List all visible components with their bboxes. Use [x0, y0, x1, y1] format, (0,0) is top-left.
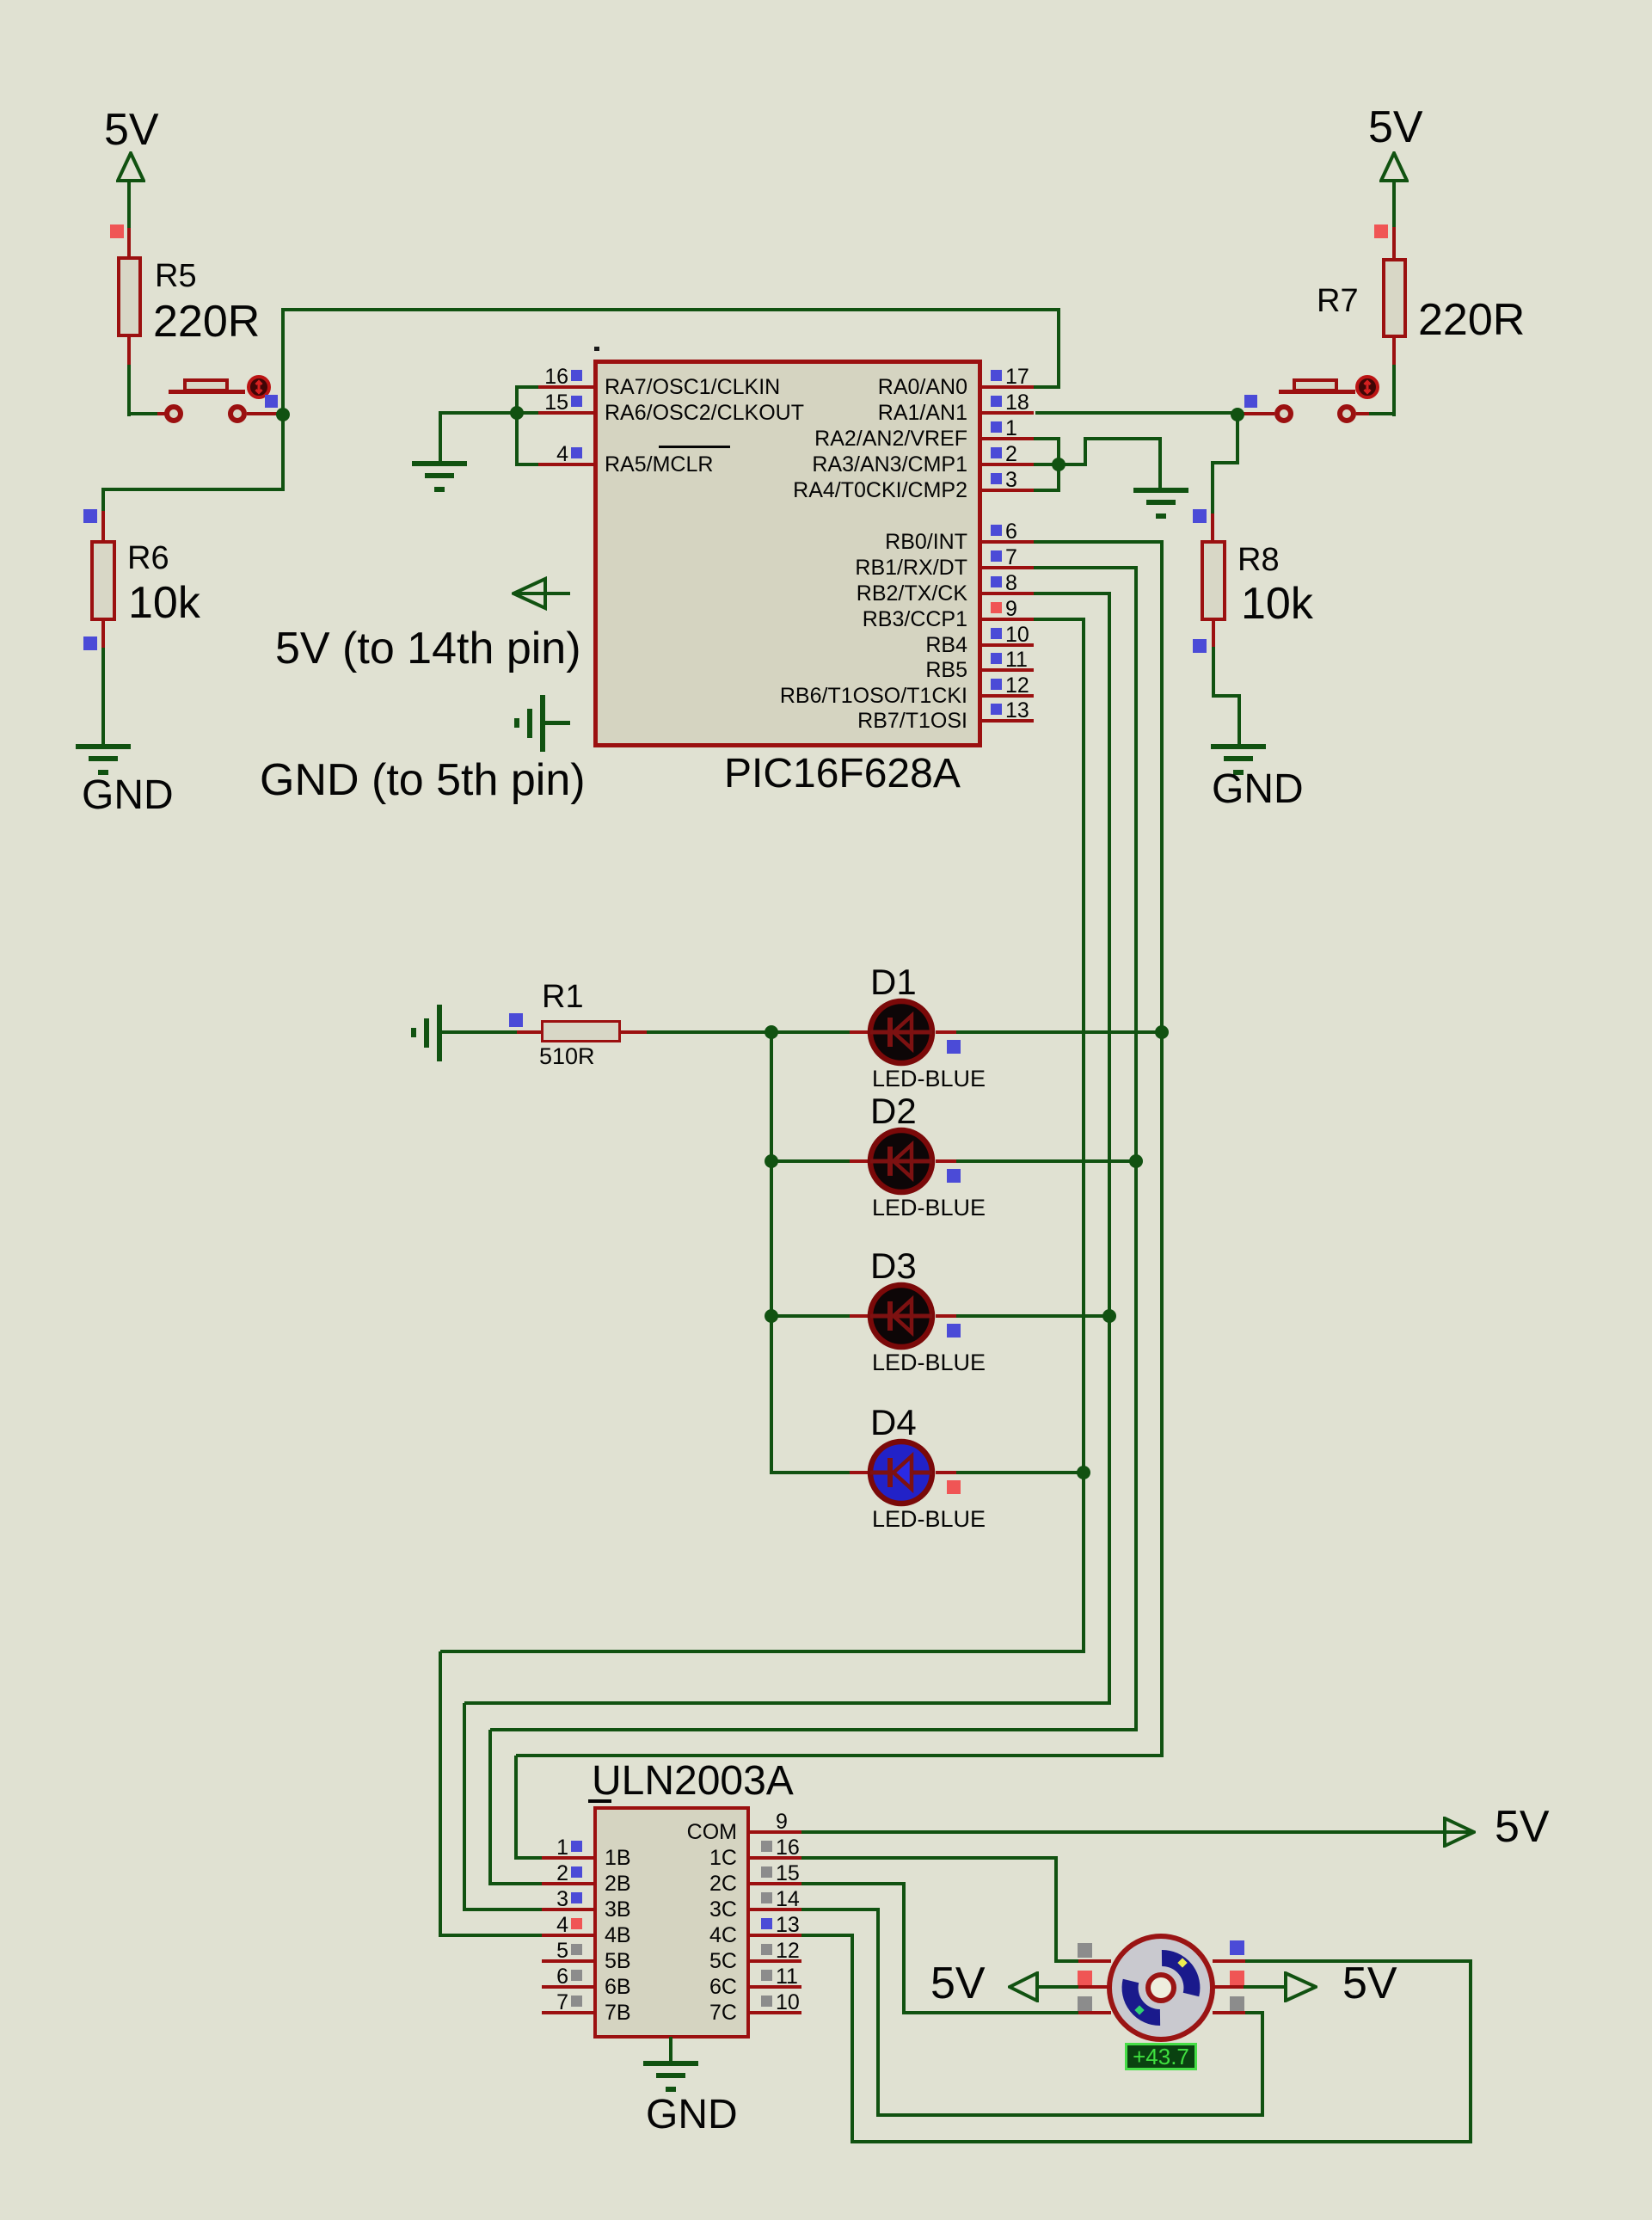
- LED D2 value label LED-BLUE: [872, 1196, 986, 1220]
- push button SW2 right terminal: [1337, 404, 1356, 423]
- pin 11 6C (ULN right): [0, 0, 1, 1]
- pin 16 1C (ULN right): [0, 0, 1, 1]
- pin 15 2C (ULN right): [0, 0, 1, 1]
- node square D4 right: [947, 1480, 961, 1494]
- wire R7 to button SW2: [1392, 365, 1396, 416]
- pin name RA7/OSC1/CLKIN: [605, 377, 780, 398]
- wire D3 to bus: [956, 1314, 1111, 1318]
- wire 5V arrow to R5: [127, 181, 131, 228]
- wire pin4 up to node C: [515, 413, 519, 464]
- ground symbol (R1, rotated left): [0, 0, 1, 1]
- push button SW1 actuator: [246, 374, 272, 400]
- annotation ground symbol GND to 5th pin: [0, 0, 1, 1]
- node square motor left-bottom (grey): [1078, 1996, 1092, 2011]
- junction bus/D2: [765, 1154, 778, 1168]
- motor right-middle lead: [1213, 1985, 1245, 1989]
- wire pin9 RB3 vertical bus: [1082, 619, 1085, 1653]
- pin 13 RB7/T1OSI (PIC right): [0, 0, 1, 1]
- LED D4 label: [870, 1405, 917, 1441]
- wire R5 to SW1 left terminal: [127, 412, 159, 415]
- junction D3 net: [1102, 1309, 1116, 1323]
- pin name RB4: [193, 635, 967, 656]
- wire node D jog up: [1084, 439, 1087, 466]
- power 5V arrow symbol (left): [116, 151, 145, 184]
- pin number 3: [1005, 470, 1017, 491]
- junction bus/D3: [765, 1309, 778, 1323]
- annotation arrow 5V to 14th pin: [512, 576, 574, 611]
- wire pin16 down to node C: [515, 387, 519, 413]
- resistor R7 body: [1382, 258, 1407, 338]
- pin number 17: [1005, 366, 1029, 388]
- LED D2 (LED-BLUE): [867, 1127, 936, 1196]
- wire R1 to node E: [647, 1030, 773, 1034]
- LED D1 (LED-BLUE): [867, 998, 936, 1067]
- resistor R6 value 10k: [128, 581, 200, 625]
- push button SW1 (left): [0, 0, 1, 1]
- pin name RB5: [193, 660, 967, 681]
- resistor R1 right lead: [621, 1030, 647, 1034]
- LED D1 label: [870, 964, 917, 1000]
- pin name 6B: [605, 1977, 631, 1998]
- junction node E (R1/D1): [765, 1025, 778, 1039]
- pin number 18: [1005, 392, 1029, 414]
- resistor R8 body: [1201, 540, 1226, 621]
- junction D1 net: [1155, 1025, 1169, 1039]
- pin number 1: [0, 1837, 568, 1859]
- pin name COM: [0, 1822, 737, 1843]
- node square (blue) R8 top: [1193, 509, 1207, 523]
- LED D3 (LED-BLUE): [867, 1282, 936, 1350]
- pin 4 RA5/MCLR (PIC left): [0, 0, 1, 1]
- pin 11 RB5 (PIC right): [0, 0, 1, 1]
- resistor R5 bottom lead: [127, 337, 131, 365]
- pin name 3B: [605, 1899, 631, 1921]
- wire 1C down: [1054, 1858, 1058, 1963]
- node square (blue) R6 bottom: [83, 636, 97, 650]
- wire left toward R6: [101, 488, 285, 491]
- resistor R7 bottom lead: [1392, 338, 1396, 365]
- pin number 13: [776, 1915, 800, 1936]
- node square (blue) R8 bottom: [1193, 639, 1207, 653]
- wire D4 to bus: [956, 1471, 1085, 1474]
- wire 2C across: [801, 1882, 906, 1885]
- wire ground to R1: [440, 1030, 517, 1034]
- pin 1 1B (ULN left): [0, 0, 1, 1]
- node square (red) R5 top: [110, 224, 124, 238]
- wire pin8 RB2 across: [1034, 592, 1111, 595]
- LED D3 left lead: [850, 1314, 871, 1318]
- wire RB0 to 1B into pin: [514, 1856, 544, 1860]
- wire pin16 elbow: [515, 385, 538, 389]
- resistor R1 left lead: [517, 1030, 541, 1034]
- wire motor right-bottom lead wire: [1244, 2011, 1264, 2014]
- pin number 15: [0, 392, 568, 414]
- junction node A (left button): [276, 408, 290, 421]
- pin number 10: [1005, 624, 1029, 646]
- junction node B (right button): [1231, 408, 1244, 421]
- pin number 4: [0, 444, 568, 465]
- motor right-top lead: [1213, 1959, 1245, 1963]
- resistor R6 label: [127, 542, 169, 575]
- resistor R7 label: [1317, 285, 1359, 317]
- power 5V label (left): [104, 108, 159, 152]
- pin number 11: [1005, 649, 1028, 671]
- pin 7 7B (ULN left): [0, 0, 1, 1]
- wire motor right-middle to 5V arrow: [1244, 1985, 1287, 1989]
- pin 6 6B (ULN left): [0, 0, 1, 1]
- wire node B down: [1236, 415, 1239, 464]
- motor M1 stepper body: [1104, 1930, 1219, 2045]
- pin number 14: [776, 1889, 800, 1910]
- LED D2 left lead: [850, 1159, 871, 1163]
- wire jog across: [1084, 437, 1162, 440]
- power 5V label (motor left): [930, 1961, 986, 2006]
- resistor R5 body: [117, 256, 142, 337]
- pin number 7: [0, 1992, 568, 2014]
- pin name RA2/AN2/VREF: [193, 428, 967, 450]
- LED D4 left lead: [850, 1471, 871, 1474]
- pin name RA0/AN0: [193, 377, 967, 398]
- resistor R8 bottom lead: [1212, 621, 1215, 647]
- push button SW1 left terminal: [164, 404, 183, 423]
- node square motor right-middle (red): [1230, 1971, 1244, 1985]
- pin 5 5B (ULN left): [0, 0, 1, 1]
- wire down to mid ground: [1158, 439, 1162, 489]
- wire pin3 up to node D: [1057, 464, 1060, 490]
- wire RB2 to 3B horizontal: [464, 1701, 1111, 1705]
- pin 18 RA1/AN1 (PIC right): [0, 0, 1, 1]
- wire pin15 to node C: [517, 411, 538, 415]
- wire pin6 RB0 across: [1034, 540, 1164, 544]
- op-amp U1 PIC16F628A body: [593, 360, 982, 747]
- pin number 7: [1005, 547, 1017, 569]
- pin name RB6/T1OSO/T1CKI: [193, 686, 967, 707]
- pin name 5C: [0, 1951, 737, 1972]
- ground symbol (mid, pins 1-3): [0, 0, 1, 1]
- junction D2 net: [1129, 1154, 1143, 1168]
- annotation text 5V (to 14th pin): [275, 626, 581, 671]
- wire down to pin 17: [1057, 308, 1060, 387]
- resistor R1 label: [542, 981, 584, 1013]
- wire 3C across: [801, 1908, 880, 1911]
- IC name underline: [588, 1799, 611, 1803]
- node square (blue) R6 top: [83, 509, 97, 523]
- ground symbol (left): [0, 0, 1, 1]
- resistor R8 top lead: [1211, 513, 1214, 540]
- wire left toward R8: [1211, 461, 1239, 464]
- ground GND label (left): [82, 775, 174, 816]
- wire motor left-middle to 5V arrow: [1039, 1985, 1078, 1989]
- wire D1 to bus: [956, 1030, 1164, 1034]
- ground symbol (right): [0, 0, 1, 1]
- wire 3C down: [876, 1909, 880, 2117]
- wire PIC RA1 to node B: [1035, 411, 1237, 415]
- pin name 5B: [605, 1951, 631, 1972]
- node square D1 right: [947, 1040, 961, 1054]
- wire SW1 to node A: [247, 412, 283, 415]
- pin number 13: [1005, 700, 1029, 722]
- wire pin7 RB1 across: [1034, 566, 1138, 569]
- power 5V label (COM): [1495, 1805, 1550, 1849]
- LED D2 right lead: [936, 1159, 956, 1163]
- wire 1C to motor: [1056, 1959, 1078, 1963]
- wire RB3 to 4B into pin: [439, 1934, 544, 1937]
- pin number 2: [0, 1863, 568, 1885]
- wire pin8 RB2 vertical bus: [1108, 593, 1111, 1705]
- LED D3 right lead: [936, 1314, 956, 1318]
- wire 3C bottom across: [878, 2113, 1264, 2117]
- origin marker dot: [594, 347, 599, 351]
- pin number 16: [0, 366, 568, 388]
- node square (red) R7 top: [1374, 224, 1388, 238]
- wire jog right: [1212, 694, 1241, 698]
- pin name RA5/MCLR: [605, 454, 713, 476]
- resistor R5 top lead: [127, 228, 131, 256]
- pin number 8: [1005, 573, 1017, 594]
- wire pin6 RB0 vertical bus: [1160, 542, 1164, 1757]
- wire LED bus vertical: [770, 1032, 773, 1474]
- pin 8 RB2/TX/CK (PIC right): [0, 0, 1, 1]
- push button SW2 left terminal: [1274, 404, 1293, 423]
- LED D3 label: [870, 1248, 917, 1284]
- pin 14 3C (ULN right): [0, 0, 1, 1]
- LED D1 value label LED-BLUE: [872, 1067, 986, 1091]
- pin name RB1/RX/DT: [193, 557, 967, 579]
- node square D3 right: [947, 1324, 961, 1338]
- pin 15 RA6/OSC2/CLKOUT (PIC left): [0, 0, 1, 1]
- resistor R6 body: [90, 540, 116, 621]
- wire 4C bottom across: [852, 2140, 1472, 2143]
- wire down to R8: [1211, 463, 1214, 513]
- power 5V arrow (COM): [1443, 1817, 1476, 1848]
- wire 4C up to motor: [1469, 1961, 1472, 2142]
- resistor R7 value 220R: [1418, 298, 1525, 342]
- motor left-middle lead: [1078, 1985, 1111, 1989]
- pin number 15: [776, 1863, 800, 1885]
- pin 16 RA7/OSC1/CLKIN (PIC left): [0, 0, 1, 1]
- resistor R7 top lead: [1392, 227, 1396, 258]
- ground symbol (upper, near PIC): [0, 0, 1, 1]
- IC name PIC16F628A: [724, 753, 961, 795]
- pin number 9: [776, 1811, 788, 1833]
- push button SW2 (right): [0, 0, 1, 1]
- wire R8 down: [1212, 647, 1215, 698]
- node square (blue) R1 left: [509, 1013, 523, 1027]
- annotation text GND (to 5th pin): [260, 758, 586, 803]
- wire down to R6: [101, 488, 105, 511]
- LED D1 left lead: [850, 1030, 871, 1034]
- pin number 6: [1005, 521, 1017, 543]
- push button SW2 actuator: [1354, 374, 1380, 400]
- LED D4 right lead: [936, 1471, 956, 1474]
- wire pin17 stub: [1034, 385, 1060, 389]
- pin 1 RA2/AN2/VREF (PIC right): [0, 0, 1, 1]
- wire 2C to motor: [904, 2011, 1078, 2014]
- pin 4 4B (ULN left): [0, 0, 1, 1]
- node square motor right-top (blue): [1230, 1940, 1244, 1955]
- wire ULN ground stub: [669, 2037, 672, 2063]
- pin name 1B: [605, 1848, 631, 1869]
- power 5V arrow (motor left): [1008, 1971, 1041, 2002]
- ground symbol (ULN): [0, 0, 1, 1]
- pin number 12: [776, 1940, 800, 1962]
- junction node D (pins 1/2/3): [1052, 458, 1066, 471]
- wire node C to ground: [439, 411, 517, 415]
- wire R5 to button SW1: [127, 365, 131, 416]
- pin number 11: [776, 1966, 798, 1988]
- pin name RA1/AN1: [193, 403, 967, 424]
- node square motor left-top (grey): [1078, 1943, 1092, 1958]
- pin 3 RA4/T0CKI/CMP2 (PIC right): [0, 0, 1, 1]
- wire pin7 RB1 vertical bus: [1134, 568, 1138, 1731]
- wire 4C across: [801, 1934, 854, 1937]
- pin name 4B: [605, 1925, 631, 1946]
- wire pin4 elbow: [515, 463, 538, 466]
- pin 13 4C (ULN right): [0, 0, 1, 1]
- junction D4 net: [1077, 1466, 1090, 1479]
- pin number 12: [1005, 675, 1029, 697]
- LED D4 value label LED-BLUE: [872, 1508, 986, 1531]
- pin number 4: [0, 1915, 568, 1936]
- wire RB3 to 4B horizontal: [440, 1650, 1085, 1653]
- power 5V arrow symbol (right): [1379, 151, 1409, 184]
- LED D3 value label LED-BLUE: [872, 1351, 986, 1374]
- node square (blue) SW2: [1244, 395, 1257, 408]
- wire bus to D3: [771, 1314, 851, 1318]
- pin number 9: [1005, 599, 1017, 620]
- LED D1 right lead: [936, 1030, 956, 1034]
- node square motor right-bottom (grey): [1230, 1996, 1244, 2011]
- node square D2 right: [947, 1169, 961, 1183]
- pin name 2C: [0, 1873, 737, 1895]
- pin name RB0/INT: [193, 532, 967, 553]
- wire RB1 to 2B horizontal: [490, 1728, 1138, 1731]
- wire RB0 to 1B horizontal: [516, 1754, 1164, 1757]
- wire 4C down: [851, 1935, 854, 2143]
- wire node A up: [281, 310, 285, 415]
- pin name RB7/T1OSI: [193, 710, 967, 732]
- pin name 2B: [605, 1873, 631, 1895]
- pin 12 RB6/T1OSO/T1CKI (PIC right): [0, 0, 1, 1]
- wire R6 to ground: [101, 648, 105, 746]
- resistor R1 body: [541, 1020, 621, 1042]
- pin name RA3/AN3/CMP1: [193, 454, 967, 476]
- IC name ULN2003A: [592, 1761, 794, 1802]
- resistor R8 label: [1237, 544, 1280, 576]
- push button SW2 right pin: [1356, 412, 1369, 415]
- pin name RA6/OSC2/CLKOUT: [605, 403, 804, 424]
- pin 9 COM (ULN right): [0, 0, 1, 1]
- wire pin3 elbow: [1034, 489, 1060, 492]
- junction node C (pins 15/16/4): [510, 406, 524, 420]
- pin 12 5C (ULN right): [0, 0, 1, 1]
- pin 17 RA0/AN0 (PIC right): [0, 0, 1, 1]
- push button SW1 left pin: [157, 412, 166, 415]
- pin name 6C: [0, 1977, 737, 1998]
- pin name RA4/T0CKI/CMP2: [193, 480, 967, 501]
- resistor R5 label: [155, 260, 197, 292]
- push button SW1 right terminal: [228, 404, 247, 423]
- resistor R1 value 510R: [539, 1045, 595, 1068]
- motor left-bottom lead: [1078, 2011, 1111, 2014]
- resistor R5 value 220R: [153, 299, 260, 344]
- wire pin2 to node D: [1034, 463, 1085, 466]
- wire RB2 to 3B into pin: [463, 1908, 544, 1911]
- pin name 7C: [0, 2002, 737, 2024]
- pin 9 RB3/CCP1 (PIC right): [0, 0, 1, 1]
- resistor R6 bottom lead: [101, 621, 105, 648]
- power 5V arrow (motor right): [1284, 1971, 1317, 2002]
- pin number 2: [1005, 444, 1017, 465]
- wire bus to D1: [771, 1030, 851, 1034]
- wire RB3 to 4B vertical: [439, 1651, 442, 1935]
- wire pin9 RB3 across: [1034, 618, 1085, 621]
- wire D2 to bus: [956, 1159, 1138, 1163]
- node square (blue) SW1: [265, 395, 278, 408]
- pin number 10: [776, 1992, 800, 2014]
- node square motor left-middle (red): [1078, 1971, 1092, 1985]
- pin 2 2B (ULN left): [0, 0, 1, 1]
- wire pin1 down to node D: [1057, 439, 1060, 464]
- pin name 3C: [0, 1899, 737, 1921]
- pin 6 RB0/INT (PIC right): [0, 0, 1, 1]
- pin 10 RB4 (PIC right): [0, 0, 1, 1]
- LED D2 label: [870, 1093, 917, 1129]
- pin 7 RB1/RX/DT (PIC right): [0, 0, 1, 1]
- wire motor right-top lead wire: [1244, 1959, 1472, 1963]
- pin name 1C: [0, 1848, 737, 1869]
- power 5V label (right): [1368, 105, 1423, 150]
- ground GND label (ULN): [646, 2094, 738, 2136]
- wire RB0 to 1B vertical: [514, 1756, 518, 1858]
- pin 10 7C (ULN right): [0, 0, 1, 1]
- motor left-top lead: [1078, 1959, 1111, 1963]
- ground GND label (right): [1212, 769, 1304, 810]
- op-amp U2 ULN2003A body: [593, 1806, 750, 2039]
- wire down to upper ground: [439, 411, 442, 463]
- resistor R8 value 10k: [1241, 581, 1313, 626]
- wire 2C down: [902, 1884, 906, 2014]
- pin name RB3/CCP1: [193, 609, 967, 630]
- motor speed display +43.7: [1125, 2043, 1197, 2070]
- wire node A to PIC RA0 (top horizontal): [281, 308, 1060, 311]
- pin 2 RA3/AN3/CMP1 (PIC right): [0, 0, 1, 1]
- pin 3 3B (ULN left): [0, 0, 1, 1]
- wire RB1 to 2B into pin: [488, 1882, 544, 1885]
- wire bus to D2: [771, 1159, 851, 1163]
- wire 3C up to motor: [1261, 2013, 1264, 2115]
- pin name RB2/TX/CK: [193, 583, 967, 605]
- LED D4 (LED-BLUE): [867, 1438, 936, 1507]
- wire R7 to SW2 right terminal: [1367, 412, 1396, 415]
- pin number 3: [0, 1889, 568, 1910]
- pin name 7B: [605, 2002, 631, 2024]
- pin name 4C: [0, 1925, 737, 1946]
- wire node A down: [281, 415, 285, 491]
- pin number 1: [1005, 418, 1017, 440]
- motor right-bottom lead: [1213, 2011, 1245, 2014]
- power 5V label (motor right): [1342, 1961, 1397, 2006]
- wire SW2 to node B: [1239, 412, 1274, 415]
- wire 5V arrow to R7: [1392, 181, 1396, 227]
- wire bus to D4: [771, 1471, 851, 1474]
- resistor R6 top lead: [101, 511, 105, 540]
- pin number 5: [0, 1940, 568, 1962]
- wire RB2 to 3B vertical: [463, 1703, 466, 1909]
- pin number 16: [776, 1837, 800, 1859]
- wire pin1 elbow: [1034, 437, 1060, 440]
- wire RB1 to 2B vertical: [488, 1730, 492, 1884]
